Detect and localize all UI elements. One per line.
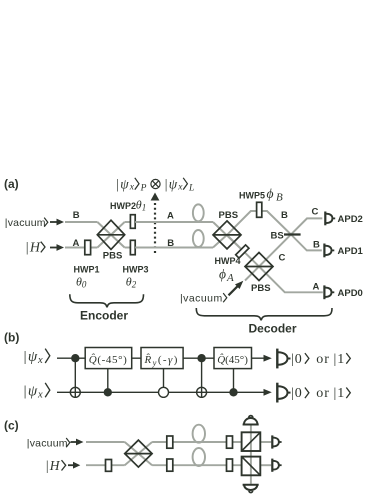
fiber loop top bbox=[193, 204, 204, 221]
wire c bottom mid bbox=[152, 464, 242, 466]
wire crossing in PBS2 bbox=[213, 222, 241, 249]
BS beam splitter bbox=[284, 233, 301, 235]
svg-text:|H: |H bbox=[45, 458, 61, 473]
fiber loop c top bbox=[193, 425, 205, 443]
gate Q(-45) bbox=[85, 348, 132, 369]
PBS1 polarizing beam splitter bbox=[97, 220, 124, 249]
wire c top input bbox=[86, 441, 125, 443]
wire A PBS3 to APD0 bbox=[259, 267, 323, 293]
gate Q(45) bbox=[214, 348, 252, 369]
HWP2 bbox=[130, 215, 135, 229]
detector APD0 bbox=[324, 285, 334, 299]
detector APD2 bbox=[325, 212, 335, 226]
dome detector bottom bbox=[243, 485, 259, 493]
svg-text:Encoder: Encoder bbox=[80, 308, 128, 322]
svg-text:B: B bbox=[313, 240, 320, 251]
wire PBS1 to HWP3 bbox=[125, 247, 131, 249]
wire crossing in PBS c bbox=[125, 442, 152, 465]
vertical beam through cubes bbox=[250, 426, 252, 484]
svg-text:|0or|1: |0or|1 bbox=[291, 386, 345, 401]
node label |psi_x>_P otimes |psi_x>_L bbox=[116, 177, 195, 194]
wire B input bbox=[65, 221, 97, 223]
wire PBS2 down to PBS3 bbox=[227, 235, 259, 267]
HWP c bottom mid bbox=[167, 459, 173, 471]
svg-text:HWP4: HWP4 bbox=[215, 256, 241, 266]
arrow wire 2 bbox=[264, 389, 272, 396]
PBS3 bbox=[245, 253, 273, 281]
wire c bottom input bbox=[86, 464, 125, 466]
svg-text:|vacuum: |vacuum bbox=[5, 217, 46, 229]
control dot q1 right bbox=[197, 354, 205, 362]
HWP c input bbox=[106, 460, 112, 472]
wire B to APD1 bbox=[291, 235, 322, 251]
detector b1 bbox=[277, 349, 290, 369]
svg-text:HWP1: HWP1 bbox=[74, 265, 100, 275]
wire vacuum into PBS3 bbox=[245, 267, 259, 281]
svg-text:HWP5: HWP5 bbox=[239, 191, 265, 201]
svg-text:B: B bbox=[281, 210, 288, 221]
wire A mid bbox=[135, 221, 213, 223]
input arrow H c bbox=[68, 462, 80, 469]
svg-text:B: B bbox=[167, 238, 174, 249]
dome detector top bbox=[243, 416, 259, 425]
control vertical 5 bbox=[233, 369, 235, 393]
qubit wire 1 bbox=[57, 357, 264, 359]
HWP1 bbox=[85, 240, 91, 254]
HWP c bottom right bbox=[227, 459, 233, 471]
svg-text:C: C bbox=[279, 252, 286, 263]
input arrow H bbox=[50, 244, 64, 251]
PBS c diamond bbox=[125, 440, 152, 467]
svg-text:C: C bbox=[312, 207, 319, 218]
svg-text:B: B bbox=[73, 210, 80, 221]
fiber loop c bottom bbox=[193, 448, 205, 466]
svg-text:(b): (b) bbox=[4, 331, 19, 345]
svg-text:APD0: APD0 bbox=[338, 288, 363, 299]
wire c top mid bbox=[152, 441, 242, 443]
PBS cube 1 bbox=[242, 432, 261, 451]
control vertical 1 bbox=[74, 358, 76, 397]
detector b2 bbox=[277, 383, 290, 403]
svg-text:PBS: PBS bbox=[251, 283, 271, 294]
wire A input bbox=[65, 247, 97, 249]
vacuum arrow into PBS3 bbox=[229, 281, 244, 296]
HWP5 bbox=[257, 202, 262, 217]
svg-text:APD1: APD1 bbox=[338, 246, 364, 257]
svg-text:|vacuum: |vacuum bbox=[180, 293, 223, 305]
svg-text:PBS: PBS bbox=[103, 250, 123, 261]
HWP3 bbox=[130, 240, 135, 254]
svg-text:HWP3: HWP3 bbox=[123, 265, 149, 275]
CNOT target q2 right bbox=[197, 387, 207, 397]
wire C PBS3 to APD2 bbox=[259, 218, 322, 266]
HWP4 tilted bbox=[236, 245, 249, 258]
svg-text:|vacuum: |vacuum bbox=[27, 438, 68, 450]
control vertical 3 bbox=[163, 369, 165, 388]
wire cube2 to detector bbox=[260, 464, 271, 466]
wire B mid bbox=[135, 247, 213, 249]
control vertical 2 bbox=[107, 369, 109, 393]
control dot q2 under gate3 bbox=[229, 388, 237, 396]
HWP c top mid bbox=[167, 436, 173, 448]
svg-text:Q̂(45°): Q̂(45°) bbox=[217, 353, 248, 366]
svg-text:R̂y(-γ): R̂y(-γ) bbox=[144, 353, 179, 367]
wire cube1 to detector bbox=[260, 441, 271, 443]
wire PBS1 to HWP2 bbox=[125, 221, 131, 223]
svg-text:(c): (c) bbox=[4, 419, 19, 433]
svg-text:|H: |H bbox=[25, 241, 41, 256]
svg-text:Decoder: Decoder bbox=[249, 322, 297, 336]
encoder brace bbox=[70, 294, 144, 307]
wire crossing in PBS1 bbox=[97, 222, 124, 248]
CNOT target q2 bbox=[70, 387, 80, 397]
PBS cube 2 bbox=[242, 457, 261, 476]
svg-text:PBS: PBS bbox=[219, 210, 239, 221]
detector c1 bbox=[272, 435, 281, 448]
svg-text:|0or|1: |0or|1 bbox=[291, 352, 345, 367]
otimes symbol bbox=[151, 179, 160, 188]
fiber loop bottom bbox=[193, 230, 204, 247]
control dot q1 bbox=[71, 354, 79, 362]
dotted arrow up to tensor product bbox=[151, 193, 160, 254]
control vertical 4 bbox=[201, 358, 203, 397]
gate Ry(-gamma) bbox=[141, 348, 183, 369]
qubit wire 2 bbox=[57, 391, 264, 393]
input arrow vacuum bbox=[50, 219, 64, 226]
svg-text:BS: BS bbox=[271, 231, 284, 242]
input arrow vacuum c bbox=[71, 439, 84, 446]
PBS2 bbox=[213, 221, 241, 249]
arrow wire 1 bbox=[264, 355, 272, 362]
open control q2 under gate2 bbox=[159, 387, 169, 397]
svg-text:Q̂(-45°): Q̂(-45°) bbox=[89, 353, 128, 366]
detector c2 bbox=[272, 459, 281, 472]
svg-text:L: L bbox=[188, 183, 194, 193]
detector APD1 bbox=[324, 244, 334, 258]
decoder brace bbox=[196, 308, 332, 320]
control dot q2 under gate1 bbox=[104, 388, 112, 396]
svg-text:A: A bbox=[313, 282, 320, 293]
svg-text:APD2: APD2 bbox=[338, 214, 363, 225]
wire PBS2 up to HWP5 bbox=[227, 211, 291, 235]
svg-text:HWP2: HWP2 bbox=[110, 201, 136, 211]
svg-text:A: A bbox=[167, 210, 174, 221]
svg-text:A: A bbox=[73, 238, 80, 249]
svg-text:(a): (a) bbox=[4, 177, 19, 191]
HWP c top right bbox=[227, 436, 233, 448]
svg-text:P: P bbox=[140, 183, 147, 193]
